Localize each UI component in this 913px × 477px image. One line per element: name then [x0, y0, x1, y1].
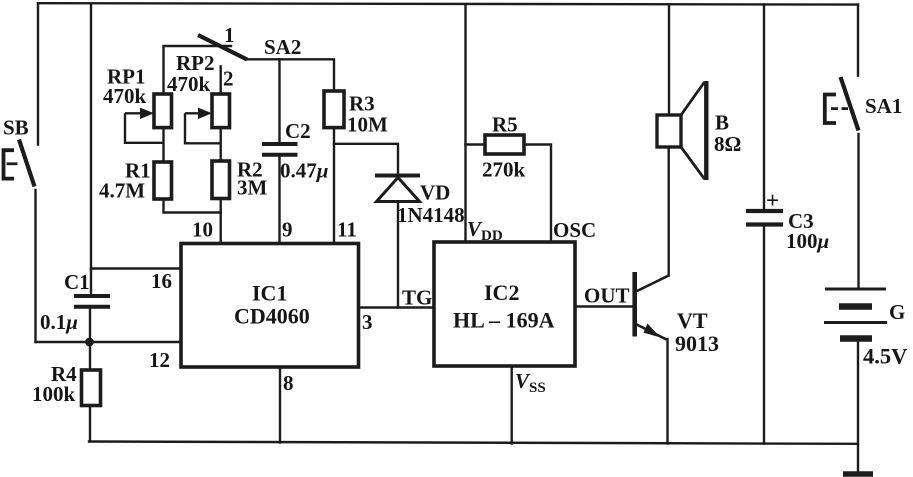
potentiometer RP2 [185, 94, 230, 143]
svg-text:4.5V: 4.5V [863, 344, 907, 369]
svg-text:16: 16 [151, 269, 172, 293]
wire speaker top [668, 5, 670, 116]
battery G [824, 289, 887, 339]
wire VD anode to TG [397, 202, 399, 308]
resistor R4 [82, 370, 101, 406]
svg-text:11: 11 [337, 218, 357, 242]
wire collector riser [668, 147, 670, 276]
switch SB [4, 140, 35, 187]
wire R1 bottom join [164, 199, 221, 213]
ground [843, 471, 873, 477]
svg-text:G: G [889, 300, 905, 324]
wire C2 to pin 9 [278, 155, 280, 244]
svg-text:12: 12 [149, 348, 170, 372]
wire R2 to pin 10 [219, 199, 221, 244]
wire SA1 upper drop [857, 5, 859, 76]
wire RP2 to R2 [219, 128, 221, 161]
IC U1 CD4060 [181, 244, 359, 368]
wire top supply rail [38, 3, 858, 4]
svg-text:B: B [715, 111, 729, 135]
wire battery to ground [857, 339, 859, 474]
svg-text:1N4148: 1N4148 [397, 203, 465, 227]
svg-text:270k: 270k [482, 158, 526, 182]
wire bottom ground rail [89, 442, 858, 444]
diode VD [375, 176, 420, 202]
svg-text:8Ω: 8Ω [714, 132, 741, 156]
svg-text:100μ: 100μ [786, 229, 829, 253]
capacitor C3 [746, 211, 783, 225]
wire SB upper drop [37, 3, 39, 144]
resistor R1 [154, 162, 172, 199]
wire to pin 16 [91, 267, 181, 269]
wire reset node to pin 12 [36, 341, 182, 343]
wire C2 tap [278, 59, 280, 144]
wire R4 to bottom rail [89, 406, 91, 442]
svg-text:+: + [766, 188, 779, 213]
svg-text:CD4060: CD4060 [234, 304, 310, 329]
wire R3 branch to VD [334, 144, 398, 176]
wire R5 left lead [466, 143, 486, 145]
wire VSS to bottom rail [511, 366, 513, 444]
wire OUT to base [575, 305, 633, 307]
wire pin 3 TG link [359, 306, 435, 308]
wire pin 8 to bottom rail [279, 367, 281, 443]
svg-text:0.47μ: 0.47μ [280, 159, 328, 183]
svg-text:TG: TG [402, 286, 432, 310]
wire R5 right to OSC [524, 145, 551, 243]
svg-text:IC2: IC2 [484, 280, 519, 305]
resistor R3 [324, 91, 344, 128]
resistor R5 [485, 135, 524, 154]
wire SB lower drop [34, 190, 36, 342]
wire VDD drop to IC2 [464, 5, 466, 243]
wire C1 bottom to node [89, 307, 91, 343]
svg-text:0.1μ: 0.1μ [40, 310, 78, 334]
transistor VT 9013 [635, 272, 669, 340]
svg-text:SB: SB [3, 116, 29, 140]
node reset junction [85, 338, 94, 347]
svg-text:IC1: IC1 [252, 281, 287, 306]
svg-text:VT: VT [677, 308, 708, 333]
wire RP1 to R1 [162, 128, 164, 162]
wire RP1 top to SA2 contact 1 [164, 46, 232, 94]
svg-text:470k: 470k [103, 84, 147, 108]
switch SA1 [825, 77, 859, 131]
wire R3 to pin 11 [333, 128, 335, 244]
switch SA2 blade [198, 35, 247, 60]
svg-text:4.7M: 4.7M [99, 179, 145, 203]
wire SA1 to battery [857, 134, 859, 289]
svg-text:8: 8 [283, 371, 294, 395]
svg-text:3: 3 [362, 310, 373, 334]
resistor R2 [212, 161, 230, 199]
speaker B [657, 81, 706, 180]
svg-text:C1: C1 [64, 270, 90, 294]
svg-text:SA2: SA2 [264, 35, 301, 59]
capacitor C1 [74, 296, 110, 307]
wire C3 to bottom rail [763, 225, 765, 444]
svg-text:9: 9 [282, 218, 293, 242]
wire SA2 contact 2 stub [219, 66, 221, 94]
wire node to R4 [89, 342, 91, 370]
potentiometer RP1 [125, 94, 172, 143]
IC U2 HL-169A [434, 242, 575, 366]
svg-text:2: 2 [223, 67, 234, 91]
wire emitter to bottom rail [666, 339, 668, 444]
svg-text:R5: R5 [492, 113, 518, 137]
svg-text:SA1: SA1 [865, 94, 902, 118]
svg-text:9013: 9013 [675, 331, 719, 356]
svg-text:100k: 100k [32, 382, 76, 406]
svg-text:3M: 3M [237, 176, 268, 200]
wire SA2 common to R3 [247, 59, 334, 91]
svg-text:HL – 169A: HL – 169A [453, 308, 555, 333]
wire VDD drop to C1 [90, 4, 92, 296]
svg-text:OSC: OSC [553, 218, 596, 242]
svg-text:10M: 10M [347, 113, 388, 137]
svg-text:470k: 470k [167, 72, 211, 96]
wire C3 top drop [763, 5, 765, 212]
svg-text:VD: VD [420, 181, 450, 205]
svg-text:C2: C2 [285, 119, 311, 143]
svg-text:10: 10 [192, 218, 213, 242]
capacitor C2 [262, 144, 298, 155]
svg-text:OUT: OUT [584, 284, 630, 308]
svg-text:1: 1 [224, 23, 235, 47]
